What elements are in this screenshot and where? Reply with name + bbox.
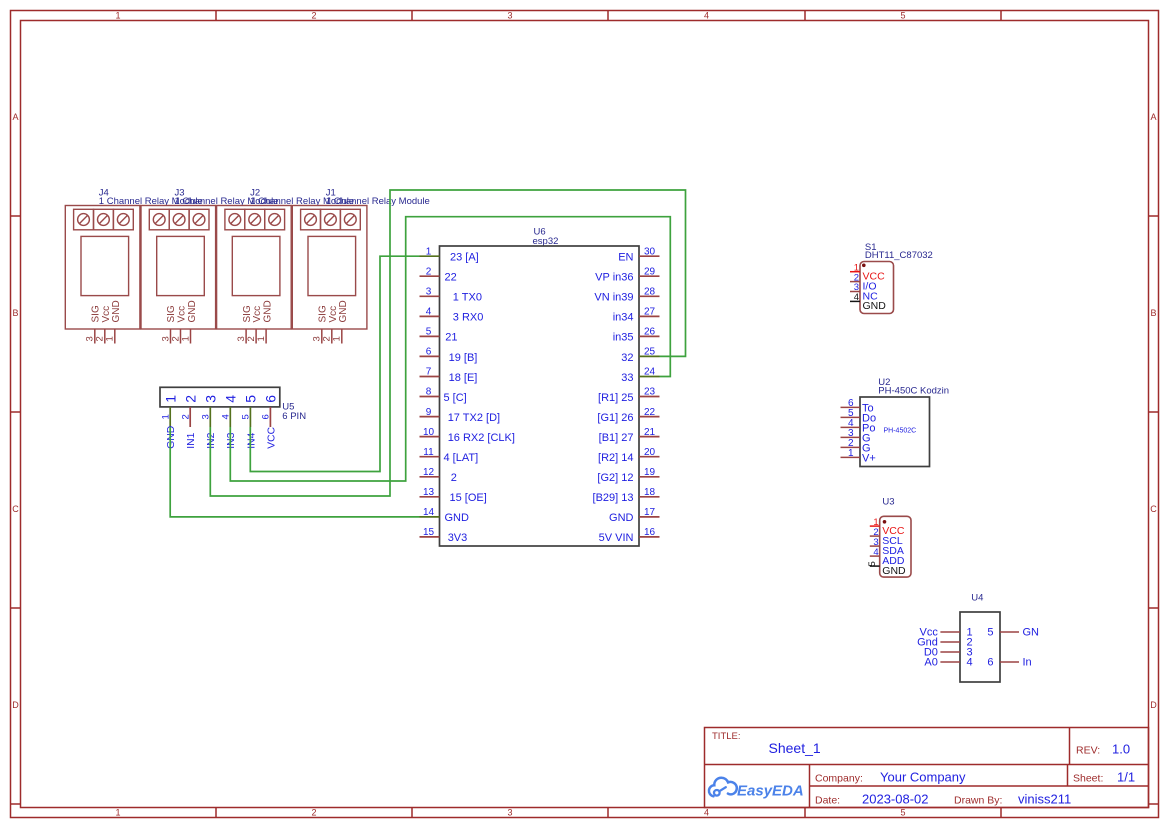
IC U6 esp32 (420, 227, 660, 547)
svg-text:[B1] 27: [B1] 27 (599, 432, 634, 444)
svg-text:[G1] 26: [G1] 26 (597, 412, 633, 424)
U6 pin 5 (21) (420, 335, 440, 337)
svg-text:Sheet_1: Sheet_1 (769, 740, 821, 756)
svg-text:6: 6 (263, 395, 279, 403)
U6 pin 4 (3 RX0) (420, 315, 440, 317)
U6 pin 28 (VN in39) (639, 295, 660, 297)
svg-text:TITLE:: TITLE: (712, 731, 741, 742)
svg-text:25: 25 (644, 347, 656, 358)
svg-text:12: 12 (423, 467, 435, 478)
svg-text:U3: U3 (882, 497, 894, 508)
svg-text:22: 22 (644, 407, 656, 418)
svg-text:In: In (1023, 657, 1032, 669)
U3 pin 4 (ADD) (870, 555, 880, 557)
svg-text:1: 1 (115, 11, 120, 21)
U6 pin 8 (5 [C]) (420, 396, 440, 398)
svg-text:5: 5 (987, 627, 993, 639)
svg-text:5: 5 (900, 11, 905, 21)
svg-text:15 [OE]: 15 [OE] (450, 492, 487, 504)
wire net IN2: U6 pin25 (32) to U5 pin3 (210, 190, 685, 496)
svg-text:GND: GND (338, 300, 349, 322)
U6 pin 16 (5V VIN) (639, 536, 660, 538)
svg-text:C: C (12, 504, 19, 514)
svg-text:IN3: IN3 (226, 432, 237, 448)
svg-text:in35: in35 (613, 332, 634, 344)
svg-text:23 [A]: 23 [A] (450, 252, 479, 264)
svg-text:GND: GND (166, 426, 177, 449)
svg-text:IN2: IN2 (206, 432, 217, 448)
svg-text:10: 10 (423, 427, 435, 438)
svg-text:REV:: REV: (1076, 745, 1100, 757)
svg-text:1: 1 (115, 808, 120, 818)
svg-text:28: 28 (644, 287, 656, 298)
svg-text:21: 21 (445, 332, 457, 344)
svg-text:GND: GND (111, 300, 122, 322)
svg-text:Sheet:: Sheet: (1073, 773, 1103, 785)
svg-text:GND: GND (445, 512, 470, 524)
sensor S1 DHT11_C87032 (850, 242, 933, 314)
svg-text:2: 2 (180, 414, 191, 419)
svg-text:2: 2 (451, 472, 457, 484)
svg-text:16: 16 (644, 527, 656, 538)
U6 pin 20 ([R2] 14) (639, 456, 660, 458)
U3 pin 2 (SCL) (870, 535, 880, 537)
U6 pin 24 (33) (639, 376, 660, 378)
S1 pin 4 (GND) (850, 300, 860, 302)
U2 pin 5 (Do) (841, 416, 861, 418)
svg-text:D: D (1150, 700, 1157, 710)
svg-text:32: 32 (621, 352, 633, 364)
svg-text:GND: GND (187, 300, 198, 322)
U6 pin 1 (23 [A]) (420, 255, 440, 257)
svg-text:GND: GND (882, 565, 906, 577)
svg-text:24: 24 (644, 367, 656, 378)
svg-text:5: 5 (243, 395, 259, 403)
svg-text:[R2] 14: [R2] 14 (598, 452, 633, 464)
S1 pin 1 (VCC) (850, 271, 860, 273)
U6 pin 6 (19 [B]) (420, 355, 440, 357)
svg-text:A: A (12, 112, 18, 122)
IC U3 (867, 497, 911, 578)
U6 pin 17 (GND) (639, 516, 660, 518)
svg-text:21: 21 (644, 427, 656, 438)
svg-text:4: 4 (704, 11, 709, 21)
svg-text:19 [B]: 19 [B] (449, 352, 478, 364)
svg-text:6: 6 (261, 414, 272, 419)
U6 pin 12 (2) (420, 476, 440, 478)
svg-text:6: 6 (987, 657, 993, 669)
wire net IN3: U6 pin24 (33) to U5 pin4 (230, 217, 670, 481)
svg-text:1: 1 (848, 448, 854, 459)
U6 pin 25 (32) (639, 355, 660, 357)
U3 pin 1 (VCC) (870, 525, 880, 527)
svg-text:A: A (1150, 112, 1156, 122)
svg-text:5 [C]: 5 [C] (444, 392, 467, 404)
svg-text:Date:: Date: (815, 795, 840, 807)
svg-text:PH-450C Kodzin: PH-450C Kodzin (878, 386, 949, 397)
svg-text:22: 22 (445, 272, 457, 284)
U6 pin 13 (15 [OE]) (420, 496, 440, 498)
U6 pin 30 (EN) (639, 255, 660, 257)
svg-text:1: 1 (160, 414, 171, 419)
svg-text:20: 20 (644, 447, 656, 458)
svg-text:IN4: IN4 (246, 432, 257, 448)
U6 pin 14 (GND) (420, 516, 440, 518)
svg-text:14: 14 (423, 507, 435, 518)
svg-text:VN in39: VN in39 (594, 292, 633, 304)
svg-text:Drawn By:: Drawn By: (954, 795, 1002, 807)
svg-text:30: 30 (644, 246, 656, 257)
U6 pin 3 (1 TX0) (420, 295, 440, 297)
svg-text:18 [E]: 18 [E] (449, 372, 478, 384)
svg-text:4: 4 (854, 292, 859, 303)
U6 pin 9 (17 TX2 [D]) (420, 416, 440, 418)
svg-text:3: 3 (426, 287, 432, 298)
svg-text:5: 5 (241, 414, 252, 419)
svg-text:5: 5 (900, 808, 905, 818)
U4 pin 3 (D0) (940, 651, 960, 653)
svg-text:EN: EN (618, 252, 633, 264)
svg-text:1: 1 (256, 336, 267, 341)
connector U5 6 PIN (160, 387, 306, 448)
U3 pin 3 (SDA) (870, 545, 880, 547)
svg-text:23: 23 (644, 387, 656, 398)
svg-text:3: 3 (201, 414, 212, 419)
svg-text:6 PIN: 6 PIN (282, 411, 306, 422)
connector J1 1 Channel Relay Module (292, 188, 430, 344)
U6 pin 11 (4 [LAT]) (420, 456, 440, 458)
svg-text:GND: GND (863, 300, 887, 312)
U2 pin 3 (G) (841, 436, 861, 438)
wire net GND: U6 pin14 to U5 pin1 (170, 427, 419, 517)
svg-text:4: 4 (221, 414, 232, 419)
U6 pin 7 (18 [E]) (420, 376, 440, 378)
U2 pin 2 (G) (841, 446, 861, 448)
svg-text:13: 13 (423, 487, 435, 498)
svg-text:IN1: IN1 (186, 432, 197, 448)
svg-text:1: 1 (332, 336, 343, 341)
U2 pin 4 (Po) (841, 426, 861, 428)
svg-text:1.0: 1.0 (1112, 742, 1130, 757)
svg-text:1/1: 1/1 (1117, 770, 1135, 785)
U6 pin 19 ([G2] 12) (639, 476, 660, 478)
svg-text:9: 9 (426, 407, 432, 418)
S1 pin 2 (I/O) (850, 281, 860, 283)
svg-text:VCC: VCC (266, 426, 277, 448)
connector J2 1 Channel Relay Module (217, 188, 355, 344)
svg-text:[B29] 13: [B29] 13 (593, 492, 634, 504)
U4 pin 1 (Vcc) (940, 631, 960, 633)
svg-text:1 TX0: 1 TX0 (453, 292, 482, 304)
svg-text:15: 15 (423, 527, 435, 538)
svg-text:4: 4 (873, 547, 878, 558)
svg-text:2: 2 (182, 395, 198, 403)
U6 pin 21 ([B1] 27) (639, 436, 660, 438)
svg-text:Your Company: Your Company (880, 770, 966, 785)
wire net IN4: U6 pin1 (23 [A]) to U5 pin5 (250, 256, 419, 471)
svg-text:DHT11_C87032: DHT11_C87032 (865, 250, 933, 261)
svg-text:1: 1 (162, 395, 178, 403)
connector J3 1 Channel Relay Module (141, 188, 279, 344)
svg-text:4: 4 (426, 307, 432, 318)
svg-text:3: 3 (507, 808, 512, 818)
svg-text:3: 3 (507, 11, 512, 21)
svg-text:3 RX0: 3 RX0 (453, 312, 484, 324)
connector J4 1 Channel Relay Module (65, 188, 203, 344)
IC U4 (917, 593, 1039, 683)
svg-text:7: 7 (426, 367, 432, 378)
svg-text:[G2] 12: [G2] 12 (597, 472, 633, 484)
svg-text:33: 33 (621, 372, 633, 384)
svg-text:17: 17 (644, 507, 656, 518)
U2 pin 1 (V+) (841, 456, 861, 458)
svg-text:D: D (12, 700, 19, 710)
svg-text:17 TX2 [D]: 17 TX2 [D] (448, 412, 500, 424)
U2 pin 6 (To) (841, 406, 861, 408)
U6 pin 10 (16 RX2 [CLK]) (420, 436, 440, 438)
U6 pin 23 ([R1] 25) (639, 396, 660, 398)
svg-text:29: 29 (644, 266, 656, 277)
U4 pin 5 (GN) (1000, 631, 1019, 633)
svg-text:19: 19 (644, 467, 656, 478)
svg-text:5: 5 (867, 561, 878, 566)
svg-text:2: 2 (311, 11, 316, 21)
svg-text:16 RX2 [CLK]: 16 RX2 [CLK] (448, 432, 515, 444)
U4 pin 6 (In) (1000, 661, 1019, 663)
svg-text:4: 4 (704, 808, 709, 818)
svg-text:5V VIN: 5V VIN (599, 532, 634, 544)
svg-text:in34: in34 (613, 312, 634, 324)
svg-text:18: 18 (644, 487, 656, 498)
svg-text:5: 5 (426, 327, 432, 338)
U6 pin 15 (3V3) (420, 536, 440, 538)
svg-text:U4: U4 (971, 593, 983, 604)
svg-text:1: 1 (426, 246, 432, 257)
svg-text:4: 4 (223, 395, 239, 403)
U6 pin 26 (in35) (639, 335, 660, 337)
EasyEDA logo (709, 778, 804, 800)
svg-text:GN: GN (1023, 627, 1040, 639)
svg-text:1: 1 (180, 336, 191, 341)
svg-text:27: 27 (644, 307, 656, 318)
svg-text:viniss211: viniss211 (1018, 792, 1071, 807)
svg-text:4 [LAT]: 4 [LAT] (444, 452, 479, 464)
svg-text:3V3: 3V3 (448, 532, 468, 544)
svg-text:A0: A0 (924, 657, 937, 669)
U6 pin 2 (22) (420, 275, 440, 277)
svg-text:1: 1 (105, 336, 116, 341)
svg-text:2023-08-02: 2023-08-02 (862, 792, 929, 807)
svg-text:EasyEDA: EasyEDA (737, 783, 804, 800)
U3 pin 5 (GND) (870, 565, 880, 567)
svg-text:B: B (12, 308, 18, 318)
U6 pin 27 (in34) (639, 315, 660, 317)
module U2 PH-450C Kodzin (841, 377, 950, 467)
svg-text:4: 4 (967, 657, 973, 669)
svg-text:2: 2 (426, 266, 432, 277)
U4 pin 4 (A0) (940, 661, 960, 663)
svg-text:26: 26 (644, 327, 656, 338)
U6 pin 22 ([G1] 26) (639, 416, 660, 418)
svg-text:PH-4502C: PH-4502C (884, 428, 917, 435)
svg-text:2: 2 (311, 808, 316, 818)
svg-text:Company:: Company: (815, 773, 863, 785)
title block (705, 728, 1149, 808)
svg-text:11: 11 (423, 447, 434, 458)
svg-text:GND: GND (609, 512, 634, 524)
svg-text:B: B (1150, 308, 1156, 318)
U6 pin 18 ([B29] 13) (639, 496, 660, 498)
svg-text:3: 3 (203, 395, 219, 403)
svg-text:C: C (1150, 504, 1157, 514)
S1 pin 3 (NC) (850, 291, 860, 293)
svg-text:6: 6 (426, 347, 432, 358)
svg-text:8: 8 (426, 387, 432, 398)
svg-text:VP in36: VP in36 (595, 272, 633, 284)
svg-text:GND: GND (262, 300, 273, 322)
U6 pin 29 (VP in36) (639, 275, 660, 277)
U4 pin 2 (Gnd) (940, 641, 960, 643)
svg-text:[R1] 25: [R1] 25 (598, 392, 633, 404)
svg-text:V+: V+ (862, 452, 876, 464)
